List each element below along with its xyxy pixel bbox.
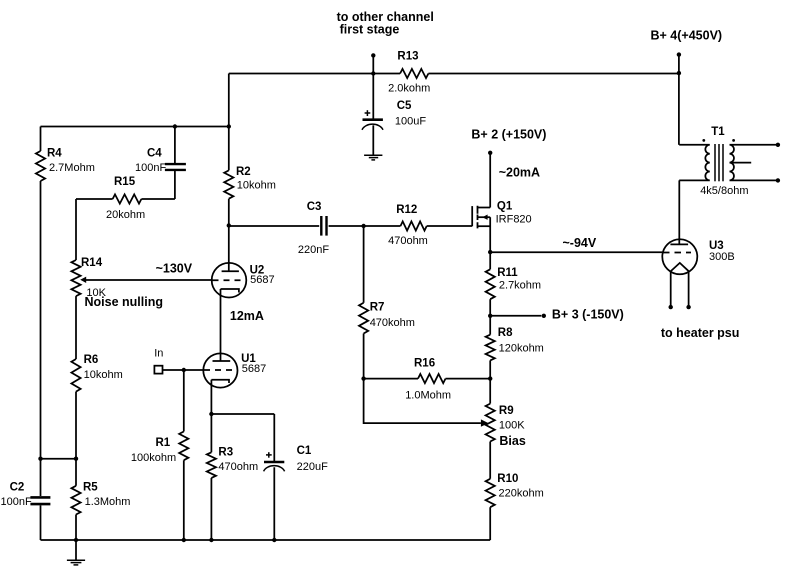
svg-text:R5: R5	[83, 482, 98, 494]
svg-text:2.0kohm: 2.0kohm	[388, 83, 430, 95]
wire U2 cathode to U1 plate	[220, 289, 222, 361]
wire Q1 source to U3 grid	[490, 251, 662, 253]
svg-text:220nF: 220nF	[298, 244, 329, 256]
node secondary top terminal	[776, 143, 780, 147]
svg-text:100nF: 100nF	[1, 496, 32, 508]
resistor R11	[486, 252, 542, 316]
svg-text:R3: R3	[218, 447, 233, 459]
svg-text:~130V: ~130V	[156, 262, 193, 276]
wire input to U1 grid	[163, 369, 204, 371]
svg-text:C4: C4	[147, 148, 162, 160]
resistor R16	[364, 357, 491, 401]
wire C5 to ground	[372, 125, 374, 154]
svg-text:120kohm: 120kohm	[499, 343, 544, 355]
node junction link left	[38, 457, 42, 461]
svg-text:Bias: Bias	[499, 434, 525, 448]
node junction top rail and B+4 drop	[677, 71, 681, 75]
svg-text:5687: 5687	[242, 363, 266, 375]
node junction rail C1	[272, 538, 276, 542]
svg-text:B+ 4(+450V): B+ 4(+450V)	[651, 29, 723, 43]
resistor R8	[486, 316, 544, 379]
svg-text:R13: R13	[397, 50, 418, 62]
svg-text:R7: R7	[370, 302, 385, 314]
svg-text:to heater psu: to heater psu	[661, 326, 740, 340]
capacitor C4	[135, 127, 186, 200]
node junction R8 bottom / R16	[488, 376, 492, 380]
svg-text:1.0Mohm: 1.0Mohm	[405, 390, 451, 402]
wire C3 to R12	[329, 225, 401, 227]
svg-text:R15: R15	[114, 176, 136, 188]
wire ground stub	[75, 540, 77, 560]
label to other channel first stage	[337, 10, 434, 36]
node heater terminal left	[669, 305, 673, 309]
potentiometer R14 noise nulling	[71, 257, 163, 309]
wire R2 node to C3	[229, 225, 319, 227]
node junction rail R3	[209, 538, 213, 542]
node junction link right	[74, 457, 78, 461]
svg-text:R16: R16	[414, 357, 435, 369]
node junction rail R1	[182, 538, 186, 542]
wire R3 node to C1	[211, 413, 274, 415]
svg-text:100kohm: 100kohm	[131, 452, 176, 464]
resistor R6	[71, 296, 122, 459]
svg-text:5687: 5687	[250, 274, 274, 286]
wire R4-C4 top rail	[41, 126, 229, 128]
wire U1 cathode down to R3 node	[210, 380, 212, 414]
svg-text:220uF: 220uF	[297, 461, 328, 473]
node junction R2 bottom / C3 wire / U2 plate	[227, 223, 231, 227]
tube U1 5687	[203, 353, 266, 388]
svg-text:~-94V: ~-94V	[563, 236, 597, 250]
svg-text:T1: T1	[711, 126, 725, 138]
transistor Q1 IRF820	[472, 153, 531, 252]
svg-text:first stage: first stage	[340, 22, 400, 36]
svg-text:10kohm: 10kohm	[84, 369, 123, 381]
potentiometer R9 bias	[486, 379, 526, 479]
svg-text:1.3Mohm: 1.3Mohm	[85, 496, 131, 508]
svg-text:300B: 300B	[709, 251, 735, 263]
ground below C5	[364, 155, 382, 160]
wire to B+3 terminal	[490, 315, 541, 317]
node secondary bottom terminal	[776, 178, 780, 182]
resistor R5	[71, 459, 130, 540]
wire R14 wiper to U2 grid	[86, 279, 212, 281]
tube U2 5687	[212, 263, 275, 298]
svg-text:2.7kohm: 2.7kohm	[499, 280, 541, 292]
svg-text:In: In	[154, 348, 163, 360]
svg-text:~20mA: ~20mA	[499, 166, 540, 180]
svg-text:470ohm: 470ohm	[388, 235, 428, 247]
capacitor C2	[1, 459, 51, 540]
svg-text:Q1: Q1	[497, 201, 513, 213]
wire T1 primary bottom to U3 plate	[678, 180, 680, 244]
node to-other-channel terminal dot	[371, 53, 375, 57]
svg-text:R14: R14	[81, 257, 103, 269]
svg-text:R9: R9	[499, 405, 514, 417]
svg-text:C5: C5	[397, 100, 412, 112]
resistor R12	[388, 204, 428, 247]
wire stub to other-channel terminal	[372, 57, 374, 74]
wire bottom ground rail	[41, 539, 491, 541]
wire top rail from R2 node to B+4 node with gap for R13	[229, 73, 679, 75]
ground symbol bottom	[67, 560, 85, 565]
wire R15 down to R14	[75, 199, 77, 260]
resistor R15	[76, 176, 175, 221]
svg-text:470kohm: 470kohm	[370, 317, 415, 329]
capacitor C1 (polarized)	[264, 414, 328, 540]
svg-text:B+ 3 (-150V): B+ 3 (-150V)	[552, 307, 624, 321]
wire R2 branch vertical from top rail	[228, 74, 230, 226]
svg-text:20kohm: 20kohm	[106, 209, 145, 221]
wire R12 to Q1 gate	[427, 225, 473, 227]
resistor R7	[359, 226, 415, 379]
wire U2 plate lead	[228, 226, 230, 272]
resistor R2	[224, 166, 276, 199]
node junction R7 top	[361, 224, 365, 228]
resistor R10	[486, 473, 544, 540]
svg-text:10kohm: 10kohm	[237, 179, 276, 191]
transformer T1	[679, 126, 778, 197]
node R9 wiper arrow	[481, 419, 489, 426]
svg-text:R4: R4	[47, 148, 62, 160]
node junction rail R5	[74, 538, 78, 542]
tube U3 300B	[662, 239, 734, 274]
wire R7 node down and right to R9 wiper	[364, 379, 481, 424]
capacitor C3	[298, 201, 329, 256]
svg-text:220kohm: 220kohm	[499, 488, 544, 500]
svg-text:C3: C3	[307, 201, 322, 213]
svg-text:B+ 2 (+150V): B+ 2 (+150V)	[471, 128, 546, 142]
node junction R4/C4 rail meets R2 branch	[227, 124, 231, 128]
node B+3 terminal dot	[542, 314, 546, 318]
wire U3 filament legs to heater terminals	[671, 271, 689, 305]
svg-text:R1: R1	[156, 437, 171, 449]
svg-text:R2: R2	[236, 166, 251, 178]
node B+4 terminal dot	[677, 52, 681, 56]
resistor R1	[131, 370, 189, 540]
resistor R4	[36, 127, 95, 459]
svg-text:R8: R8	[498, 327, 513, 339]
svg-text:2.7Mohm: 2.7Mohm	[49, 162, 95, 174]
svg-text:470ohm: 470ohm	[218, 461, 258, 473]
node B+2 terminal dot	[488, 151, 492, 155]
node heater terminal right	[686, 305, 690, 309]
node junction R7 bottom / R16 / bias wire	[361, 376, 365, 380]
svg-text:C1: C1	[297, 445, 312, 457]
node junction input wire / R1	[182, 368, 186, 372]
svg-text:4k5/8ohm: 4k5/8ohm	[700, 185, 748, 197]
node junction R11 bottom / B+3	[488, 314, 492, 318]
capacitor C5 (polarized)	[362, 74, 426, 130]
svg-text:R10: R10	[497, 473, 518, 485]
svg-text:100nF: 100nF	[135, 162, 166, 174]
node junction C4 top	[173, 124, 177, 128]
svg-text:Noise nulling: Noise nulling	[85, 295, 163, 309]
wire B+4 down to transformer primary	[678, 55, 680, 145]
svg-text:100uF: 100uF	[395, 115, 426, 127]
svg-text:R6: R6	[84, 354, 99, 366]
node junction at C5 top	[371, 71, 375, 75]
svg-text:100K: 100K	[499, 419, 525, 431]
svg-text:R12: R12	[396, 204, 417, 216]
svg-text:12mA: 12mA	[230, 309, 264, 323]
svg-text:R11: R11	[497, 267, 518, 279]
svg-text:IRF820: IRF820	[496, 213, 532, 225]
svg-text:C2: C2	[10, 482, 25, 494]
resistor R3	[207, 414, 258, 540]
node junction Q1 source / R11 / U3 grid wire	[488, 250, 492, 254]
wire R4 branch to R6 branch link	[41, 458, 77, 460]
node junction U1 cathode / R3 / C1	[209, 412, 213, 416]
resistor R13	[388, 50, 430, 94]
input terminal square	[154, 366, 162, 374]
